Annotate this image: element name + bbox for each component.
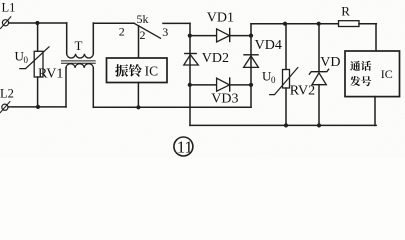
- transformer T: [62, 23, 96, 107]
- resistor R: [339, 21, 377, 27]
- ringer IC box 振铃IC: [107, 58, 168, 83]
- node junction dot VD top: [317, 22, 321, 26]
- wire bridge left vertical rail: [189, 23, 191, 125]
- wire top rail from transformer to 5k pot: [93, 22, 134, 24]
- speech IC box 通话发号IC: [345, 51, 400, 125]
- T core lines: [62, 60, 96, 62]
- node junction dot VD3 left: [188, 83, 192, 87]
- node junction dot VD1 right: [249, 34, 253, 38]
- node junction dot VD1 left: [188, 34, 192, 38]
- diode VD2: [184, 54, 199, 66]
- label 振铃IC: [115, 64, 142, 77]
- wire mid ground rail (transformer to bridge right): [93, 106, 251, 108]
- wire pot tap to ringer IC pin 2: [138, 26, 140, 58]
- wire top rail from L1 to transformer: [9, 22, 67, 24]
- varistor RV2: [270, 24, 298, 126]
- zener diode VD: [309, 24, 328, 126]
- wire bottom output rail: [190, 124, 376, 126]
- label 发号: [350, 76, 371, 86]
- varistor RV1: [20, 47, 49, 77]
- node junction dot RV2 top: [283, 22, 287, 26]
- diode VD4: [244, 55, 259, 68]
- wire ringer IC bottom pin: [137, 83, 139, 108]
- wire right vertical from R to speech IC: [375, 24, 377, 51]
- wire speech IC bottom pin: [374, 97, 376, 126]
- terminal L2: [0, 102, 10, 113]
- wire T upper winding left leg: [66, 23, 68, 54]
- wire T lower winding left leg: [65, 68, 67, 107]
- node junction dot RV2 bottom: [284, 123, 288, 127]
- T upper winding: [67, 54, 94, 58]
- diode VD1: [190, 29, 251, 42]
- wire top rail right of pot: [163, 22, 190, 24]
- node junction dot VD3 right: [249, 83, 253, 87]
- diode VD3: [190, 78, 251, 91]
- wire T lower winding right leg: [92, 68, 94, 107]
- label 通话: [350, 61, 371, 71]
- scan paper grain overlay: [0, 0, 405, 158]
- node junction dot RV1 top: [35, 21, 39, 25]
- node junction dot VD bottom: [317, 123, 321, 127]
- wire bottom-left rail L2 to transformer primary: [8, 106, 66, 108]
- potentiometer 5k wiper diagonal: [134, 23, 161, 38]
- wire top rail right section: [251, 23, 339, 25]
- terminal L1: [1, 17, 11, 29]
- wire RV1 lower lead: [37, 77, 39, 107]
- node junction dot ringer IC ground: [136, 105, 140, 109]
- T lower winding: [66, 64, 93, 68]
- node junction dot RV1 bottom: [36, 105, 40, 109]
- wire T upper winding right leg: [92, 23, 94, 54]
- wire bridge right vertical rail: [250, 24, 252, 107]
- wire RV1 upper lead: [37, 23, 39, 51]
- figure number circle 11: [174, 137, 193, 156]
